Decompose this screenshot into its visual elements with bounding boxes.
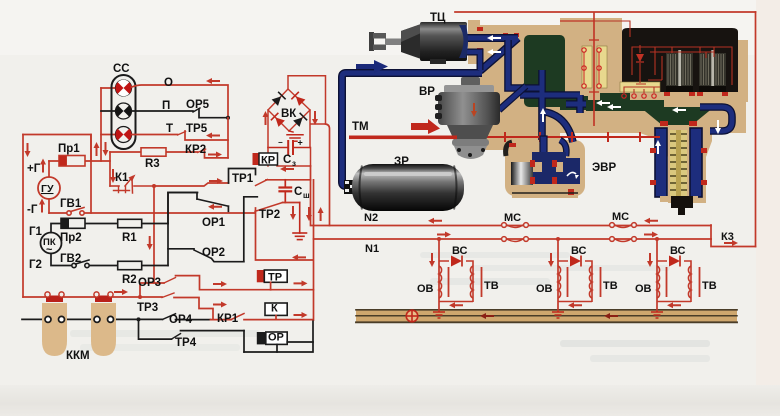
- svg-text:-Г: -Г: [27, 204, 38, 216]
- relay box K: [265, 303, 287, 320]
- svg-text:N2: N2: [364, 212, 378, 224]
- annotation arrows red: [25, 78, 739, 319]
- switch GV1: [67, 208, 84, 216]
- wire GU bottom to GV1 row: [48, 199, 50, 213]
- repeater relay block tan: [505, 140, 585, 196]
- svg-text:К1: К1: [115, 172, 129, 184]
- svg-text:МС: МС: [612, 211, 629, 223]
- svg-text:ТМ: ТМ: [352, 121, 369, 133]
- branch 1 vertical: [438, 239, 440, 312]
- dark green chamber block: [524, 35, 565, 107]
- diode bridge VK: [268, 76, 326, 148]
- contact TP5 red: [132, 131, 229, 140]
- vertical x91: [90, 135, 92, 214]
- diaphragm funnel dark green: [640, 107, 714, 125]
- svg-text:Пр1: Пр1: [58, 143, 80, 155]
- bridge top feed: [288, 76, 326, 124]
- contact TP3 red: [140, 293, 213, 320]
- diode black top-left: [272, 92, 285, 105]
- TM passage red line inside body: [457, 132, 660, 142]
- svg-text:Пр2: Пр2: [60, 232, 82, 244]
- contact OR1 black: [168, 193, 228, 224]
- junction dot K1 out: [152, 184, 156, 188]
- EVR body tan casting: [468, 18, 748, 203]
- svg-text:ш: ш: [303, 191, 310, 200]
- coil TV1: [470, 266, 473, 298]
- svg-text:R1: R1: [122, 232, 137, 244]
- contact K1 with arrow: [110, 175, 154, 194]
- svg-text:СС: СС: [113, 63, 130, 75]
- KKM black wire: [22, 318, 139, 320]
- blue pipes inside EVR body: [508, 40, 732, 140]
- relay box OR: [257, 332, 313, 352]
- brake cylinder TC: [369, 22, 468, 64]
- diode VS1: [439, 261, 473, 302]
- vertical x154 down to OR3: [153, 186, 155, 283]
- branch 1 ground: [433, 312, 445, 318]
- relay box TP: [257, 270, 287, 290]
- red right bus x228: [227, 118, 229, 158]
- electromagnet housing (black): [622, 28, 738, 92]
- relay coil KP box: [253, 148, 311, 167]
- svg-text:ТР1: ТР1: [232, 173, 254, 185]
- red seals at TC flange: [477, 27, 519, 52]
- contact TP1 (black bracket + red blade): [229, 169, 311, 186]
- contact TP4 black: [139, 319, 245, 352]
- diode VS3: [657, 261, 691, 302]
- svg-text:С: С: [294, 186, 302, 198]
- svg-text:ЭВР: ЭВР: [592, 162, 616, 174]
- left border wire: [22, 135, 24, 298]
- svg-text:Г2: Г2: [29, 259, 42, 271]
- svg-text:+Г: +Г: [27, 163, 41, 175]
- svg-text:ОВ: ОВ: [536, 283, 553, 295]
- svg-text:К: К: [271, 303, 278, 315]
- svg-text:КР2: КР2: [185, 144, 206, 156]
- capacitor Cz: [268, 141, 310, 154]
- svg-text:ТЦ: ТЦ: [430, 12, 446, 24]
- svg-text:ОР5: ОР5: [186, 99, 210, 111]
- svg-text:ТР3: ТР3: [137, 302, 158, 314]
- contact KP2 red: [166, 149, 228, 158]
- wire O top: [132, 85, 229, 118]
- lamp bus vertical: [100, 88, 102, 161]
- svg-text:ОР: ОР: [268, 332, 284, 344]
- MC connectors on N1: [502, 237, 637, 242]
- white flow arrows on pipes: [487, 35, 721, 154]
- car branch circuits: [433, 237, 700, 318]
- contact TP2 red: [255, 203, 300, 212]
- svg-text:−: −: [278, 138, 283, 147]
- rail plus terminal: [406, 310, 418, 322]
- TP2 lower loop: [256, 208, 314, 260]
- contact OR2 black: [168, 197, 257, 266]
- diode black bottom-right: [293, 113, 306, 126]
- K3 junction wiring: [455, 12, 756, 247]
- signal lamp block CC: [112, 75, 136, 149]
- branch 2 vertical: [557, 239, 559, 312]
- big blue flow arrow near TC: [356, 60, 388, 73]
- diode red bottom-left: [271, 113, 284, 126]
- svg-text:R3: R3: [145, 158, 160, 170]
- fuse Pr2: [61, 218, 85, 228]
- wire K1 to TP1: [154, 183, 229, 186]
- svg-text:~: ~: [46, 244, 53, 256]
- air distributor VR: [435, 77, 500, 159]
- red supply line vertical into EVR: [593, 12, 595, 126]
- diode VS2: [558, 261, 592, 302]
- red diode in housing: [636, 54, 644, 62]
- svg-text:N1: N1: [365, 243, 379, 255]
- KKM paddle 2: [91, 292, 116, 356]
- blue pipe: TC supply loop to ZR: [342, 38, 518, 186]
- wire to fuse node: [23, 135, 91, 162]
- svg-text:С: С: [283, 154, 291, 166]
- svg-text:ОР2: ОР2: [202, 247, 225, 259]
- svg-text:К3: К3: [721, 231, 734, 243]
- svg-text:ЗР: ЗР: [394, 156, 409, 168]
- svg-text:ВР: ВР: [419, 86, 435, 98]
- svg-text:ОР3: ОР3: [138, 277, 161, 289]
- lamp T (red): [115, 127, 131, 143]
- svg-text:ВС: ВС: [670, 245, 686, 257]
- rail: [356, 309, 737, 323]
- svg-text:МС: МС: [504, 212, 521, 224]
- svg-text:Т: Т: [166, 123, 173, 135]
- svg-text:ТВ: ТВ: [603, 280, 618, 292]
- yellow terminal strip under housing: [620, 82, 660, 98]
- svg-text:ГВ2: ГВ2: [60, 253, 81, 265]
- MC connectors on N2: [502, 223, 637, 228]
- coil OV2: [558, 266, 561, 298]
- lamp O (red): [115, 80, 131, 96]
- lamp P (black): [115, 103, 131, 119]
- red seal marks under coils: [664, 92, 728, 96]
- svg-text:ВС: ВС: [571, 245, 587, 257]
- svg-text:ТР: ТР: [268, 272, 282, 284]
- svg-text:ГУ: ГУ: [41, 183, 54, 195]
- reserve reservoir ZR: [344, 164, 464, 211]
- contact KP1 red: [211, 314, 314, 320]
- electromagnet coil stack 1: [666, 50, 693, 92]
- bridge side verticals: [268, 110, 310, 148]
- wire GU to fuse: [48, 161, 50, 177]
- coil OV1: [439, 266, 442, 298]
- vertical x110 K1 branch: [109, 152, 111, 186]
- svg-text:ТР2: ТР2: [259, 209, 280, 221]
- wire C from VK loop to N2: [326, 124, 330, 226]
- svg-text:+: +: [298, 138, 303, 148]
- solenoid coil frame left (yellow with red terminals): [582, 46, 607, 88]
- wire fuse row: [49, 160, 110, 162]
- contact OR3 red: [140, 276, 314, 297]
- svg-text:ТР5: ТР5: [186, 123, 208, 135]
- fuse Pr1: [59, 156, 85, 167]
- svg-text:ОВ: ОВ: [417, 283, 434, 295]
- faint bleed-through print: [70, 252, 710, 362]
- svg-text:ОР4: ОР4: [169, 314, 193, 326]
- junction dot OR5/red bus: [226, 116, 230, 120]
- svg-text:П: П: [162, 100, 170, 112]
- coil TV3: [688, 266, 691, 298]
- resistor R2: [118, 261, 142, 269]
- red wiring inside electromagnet housing: [594, 21, 732, 93]
- right red bus x313.5: [313, 180, 315, 320]
- branch 3 vertical: [656, 239, 658, 312]
- main wire y213 to TP2: [49, 212, 255, 214]
- branch 3 ground: [651, 312, 663, 318]
- svg-text:КР: КР: [261, 155, 275, 167]
- KKM paddle 1: [42, 292, 67, 356]
- diode red top-right: [292, 92, 305, 105]
- KKM red wire: [23, 296, 140, 298]
- switch GV2: [72, 260, 89, 268]
- dark green passage band: [586, 100, 664, 111]
- svg-text:Г1: Г1: [29, 226, 43, 238]
- svg-text:О: О: [164, 77, 173, 89]
- svg-text:КР1: КР1: [217, 313, 239, 325]
- svg-text:ТВ: ТВ: [702, 280, 717, 292]
- svg-text:ВК: ВК: [281, 108, 297, 120]
- N2 feed vertical: [311, 166, 712, 226]
- repeater internals: [506, 136, 580, 195]
- branch 2 ground: [552, 312, 564, 318]
- TM brake main red line: [349, 119, 457, 139]
- resistor R1: [118, 219, 142, 227]
- svg-text:ТР4: ТР4: [175, 337, 197, 349]
- diagonal pipe near VR: [499, 86, 526, 110]
- ground under Csh: [293, 203, 307, 240]
- svg-text:ТВ: ТВ: [484, 280, 499, 292]
- generator PK black circuit: [41, 193, 198, 266]
- contact OR4 black: [139, 314, 211, 320]
- bottom release valve of EVR: [650, 121, 707, 215]
- svg-text:ККМ: ККМ: [66, 350, 90, 362]
- svg-text:з: з: [292, 159, 296, 168]
- svg-text:ОР1: ОР1: [202, 217, 226, 229]
- svg-text:R2: R2: [122, 274, 137, 286]
- bridge ground: [287, 131, 303, 141]
- svg-text:ОВ: ОВ: [635, 283, 652, 295]
- N1 wire: [314, 238, 712, 240]
- capacitor Csh: [280, 180, 292, 203]
- svg-text:ГВ1: ГВ1: [60, 198, 82, 210]
- coil TV2: [589, 266, 592, 298]
- coil OV3: [657, 266, 660, 298]
- electromagnet coil stack 2: [699, 50, 726, 92]
- S pipe band to repeater: [545, 112, 573, 142]
- generator GU: [38, 177, 60, 199]
- resistor R3: [110, 148, 166, 156]
- contact OR5 black: [132, 108, 229, 118]
- svg-text:ВС: ВС: [452, 245, 468, 257]
- lamp wires: [101, 87, 116, 89]
